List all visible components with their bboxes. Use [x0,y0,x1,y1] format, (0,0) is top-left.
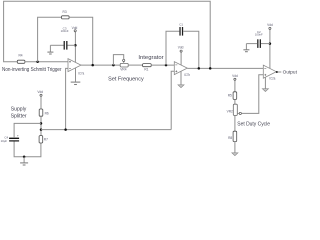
wire Vdd down to IC2a power pin [269,30,271,69]
ground for IC7a [71,68,81,85]
node junction C1 right leg [198,67,201,70]
svg-text:Integrator: Integrator [138,55,164,61]
svg-text:IC7a: IC7a [78,71,84,75]
wire output stub [278,71,282,73]
ground for C2 [243,44,249,52]
capacitor C3 100nF [50,26,75,49]
wire IC7b noninverting input stub down to mid rail [171,71,174,129]
svg-text:Output: Output [283,69,298,74]
svg-text:IC2a: IC2a [269,77,275,81]
svg-text:R6: R6 [45,111,49,115]
svg-text:Vdd: Vdd [72,26,78,30]
svg-text:IC7b: IC7b [184,73,190,77]
svg-text:R3: R3 [63,10,67,14]
op-amp IC7a [68,59,84,76]
svg-text:Non-inverting Schmitt Trigger: Non-inverting Schmitt Trigger [2,67,62,73]
resistor R7 [39,136,48,143]
svg-text:Vdd: Vdd [267,23,273,27]
wire R4 to opamp noninverting input [25,61,68,63]
op-amp IC7b [174,62,190,77]
wire bus A IC7a output to IC7b inverting input [81,64,120,66]
resistor R5 [228,92,237,100]
svg-text:Vdd: Vdd [232,74,238,78]
wire Vdd to R5 [234,80,236,91]
wire VR2 wiper to IC2a noninverting input [241,75,263,114]
power terminal Vdd above R6 [37,90,43,96]
node junction C4 branch [40,122,43,125]
ground for supply splitter [20,157,28,165]
power Vss arrow below IC7b [178,71,184,88]
wire feedback top from integrator output to schmitt input [4,1,211,68]
svg-text:R7: R7 [44,138,48,142]
svg-text:R5: R5 [228,94,232,98]
node output terminal dot [276,71,278,73]
node junction mid rail branch [40,128,43,131]
svg-text:Vdd: Vdd [178,46,184,50]
svg-text:Splitter: Splitter [11,114,27,120]
svg-text:R8: R8 [228,136,232,140]
wire mid rail Vmid bus [41,129,171,131]
svg-text:VR2: VR2 [227,109,233,113]
svg-text:R1: R1 [144,68,148,72]
wire IC7a inverting input stub down to mid rail [66,68,68,129]
wire Vdd to R6 [40,96,42,109]
node A junction at R3 branch [36,61,39,64]
capacitor C2 100nF [246,30,270,48]
node junction feedback branch [209,67,212,70]
power terminal Vdd above C2 [267,23,273,30]
node junction C1 left leg [165,64,168,67]
node junction wiper return [112,64,115,67]
power Vss arrow below R8 [232,142,238,156]
wire hysteresis loop left and top [38,17,62,62]
svg-text:Set Duty Cycle: Set Duty Cycle [237,122,270,128]
trimmer VR2 Set Duty Cycle [227,104,242,115]
wire IC7b Vdd power pin [180,52,182,65]
svg-text:VR4: VR4 [120,68,126,72]
wire trimpot to R1 [128,64,142,66]
resistor R4 [17,54,25,64]
power terminal Vdd above IC7b [178,46,184,53]
wire R6 to R7 column [40,116,42,135]
resistor R8 [228,131,237,141]
ground for C3 [47,45,53,54]
svg-text:R4: R4 [18,54,22,58]
node junction IC7a output / R3 [91,64,94,67]
wire VR2 to R8 [234,115,236,131]
wire C4 bottom to ground rail [14,142,41,157]
resistor R3 [62,10,70,19]
node junction IC7a inverting leg on mid rail [64,128,67,131]
svg-text:10µF: 10µF [1,139,8,143]
resistor R1 [143,64,152,72]
resistor R6 [39,109,49,116]
wire hysteresis loop right down to IC7a output [69,17,93,65]
op-amp IC2a [263,65,276,80]
wire R5 to VR2 [234,99,236,104]
power terminal Vdd above duty divider [232,74,238,81]
power terminal Vdd above IC7a [72,26,78,32]
wire bus B IC7b output to IC2a [187,67,263,69]
trimmer VR4 Set Frequency [113,55,128,72]
capacitor C1 [166,22,199,68]
svg-text:+: + [17,133,19,137]
wire IC7a Vdd power pin [74,32,76,62]
power Vss arrow below IC2a [262,77,268,91]
svg-text:100nF: 100nF [61,29,69,33]
svg-text:Set Frequency: Set Frequency [108,77,144,83]
wire R1 to IC7b inverting input [151,64,174,66]
svg-text:C1: C1 [179,22,183,26]
node junction ground stem [23,156,26,159]
wire to C4 top [14,123,41,137]
svg-text:Vdd: Vdd [37,90,43,94]
node junction C2 branch [269,42,272,45]
capacitor C4 10uF polarized [1,133,20,143]
svg-text:Supply: Supply [11,107,27,113]
svg-text:100nF: 100nF [255,32,263,36]
node junction C3 to Vdd stem [74,44,77,47]
